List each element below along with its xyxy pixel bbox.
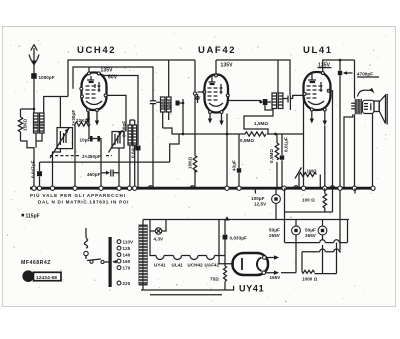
heater supply line <box>143 219 349 221</box>
svg-text:R: R <box>25 272 31 281</box>
resistor 1,5M <box>182 109 277 144</box>
svg-text:265V: 265V <box>305 233 316 238</box>
resistor 0,5M (vertical) <box>269 134 279 188</box>
chassis ground bus <box>30 187 373 190</box>
UL41 plate line <box>323 60 355 72</box>
node A (antenna/coil junction) <box>33 108 36 111</box>
resistor 75ohm <box>210 266 227 290</box>
svg-text:125: 125 <box>123 246 131 251</box>
wire <box>347 220 349 243</box>
svg-text:60V: 60V <box>108 75 118 81</box>
svg-text:310: 310 <box>39 121 44 129</box>
wire <box>130 120 135 188</box>
svg-text:12434-58: 12434-58 <box>36 275 57 281</box>
loudspeaker <box>374 94 387 125</box>
wire stub below bus <box>255 188 355 193</box>
svg-text:1000 Ω: 1000 Ω <box>302 277 318 282</box>
svg-text:12,5V: 12,5V <box>254 202 266 207</box>
wire screen line <box>163 128 304 134</box>
svg-text:170: 170 <box>123 266 131 271</box>
IF transformer T3 <box>259 93 292 109</box>
wire T2 top lead <box>168 60 170 97</box>
svg-text:100: 100 <box>167 101 172 109</box>
UAF42 section box <box>216 60 290 95</box>
voltage taps <box>117 240 133 286</box>
IF transformer T2 <box>150 97 185 188</box>
tube UAF42 bottom leads <box>210 114 222 122</box>
svg-text:DAL N DI MATRIC.187601 IN POI: DAL N DI MATRIC.187601 IN POI <box>38 200 129 205</box>
capacitor 460pF <box>87 148 119 188</box>
svg-text:4,3V: 4,3V <box>154 237 164 242</box>
resistor 100ohm <box>302 188 327 212</box>
svg-text:115pF: 115pF <box>26 214 40 220</box>
variable capacitor C2 (tuning gang section 2) <box>109 131 125 153</box>
svg-text:4700pF: 4700pF <box>357 72 373 77</box>
svg-text:15KΩ: 15KΩ <box>23 118 28 131</box>
tube UL41 bottom leads <box>312 111 325 122</box>
capacitor 1000pF <box>31 73 55 80</box>
label 115pF <box>22 214 25 217</box>
capacitor 0,04uF <box>131 100 141 188</box>
mains plug and switch S1 <box>84 228 117 264</box>
wire <box>21 109 35 188</box>
svg-text:0,033μF: 0,033μF <box>230 236 248 241</box>
tube UY41 output arrows <box>266 255 281 280</box>
svg-text:310: 310 <box>33 121 38 129</box>
oscillator coil L2 <box>128 125 137 145</box>
junction connectors <box>193 92 196 95</box>
wire <box>107 95 126 131</box>
capacitor 0,033uF <box>223 220 248 267</box>
wire <box>40 134 180 162</box>
maker logo <box>22 270 61 282</box>
tube UCH42 cathode leads <box>88 112 97 122</box>
wire (rectifier heater) <box>219 220 233 264</box>
tube UY41 <box>231 253 268 275</box>
dial lamp 4,3V <box>150 220 166 242</box>
svg-text:220: 220 <box>123 281 131 286</box>
svg-text:UY41: UY41 <box>239 284 264 294</box>
svg-text:165V: 165V <box>270 275 281 280</box>
capacitor 43uF <box>232 134 242 188</box>
svg-text:135V: 135V <box>101 67 114 73</box>
tube UCH42 <box>80 67 107 111</box>
svg-text:1000pF: 1000pF <box>39 75 55 80</box>
tube UL41 <box>303 72 330 111</box>
svg-text:140: 140 <box>123 253 131 258</box>
svg-text:0,04μF: 0,04μF <box>131 143 136 158</box>
wire <box>36 133 42 148</box>
potentiometer 1M <box>295 168 320 189</box>
wire 60V <box>100 74 139 100</box>
wire 135V <box>73 67 153 97</box>
svg-text:1,5MΩ: 1,5MΩ <box>254 121 268 126</box>
capacitor 0,047uF <box>31 160 43 188</box>
svg-text:UL41: UL41 <box>303 45 333 56</box>
UCH42 section box <box>68 60 195 97</box>
svg-text:UY41: UY41 <box>154 263 166 268</box>
power transformer winding <box>139 225 147 285</box>
wire <box>344 114 373 189</box>
svg-text:10KΩ: 10KΩ <box>188 156 193 169</box>
svg-text:0,5MΩ: 0,5MΩ <box>240 138 254 143</box>
resistor 22K <box>75 112 90 188</box>
capacitor 10uF <box>80 124 101 143</box>
svg-text:UCH42: UCH42 <box>77 45 116 56</box>
wire T2 bottom leads <box>163 103 183 134</box>
capacitor 0,01uF <box>280 134 289 188</box>
wire <box>100 139 101 189</box>
wire (secondary top to grid line) <box>44 97 68 114</box>
wire <box>198 92 261 188</box>
svg-text:2×450pF: 2×450pF <box>82 154 101 159</box>
svg-text:135V: 135V <box>221 63 234 69</box>
electrolytic 50uF (2) <box>305 220 327 239</box>
electrolytic 100uF <box>251 188 280 219</box>
capacitor 4700pF <box>338 60 379 251</box>
resistor 15K <box>18 109 27 141</box>
svg-text:0,5MΩ: 0,5MΩ <box>269 149 274 163</box>
svg-text:460pF: 460pF <box>87 172 101 177</box>
svg-text:UL41: UL41 <box>172 263 184 268</box>
variable capacitor C1 (tuning gang section 1) <box>50 128 73 158</box>
svg-text:10μF: 10μF <box>80 138 91 143</box>
svg-text:100: 100 <box>161 101 166 109</box>
bus nodes <box>32 186 375 191</box>
tube UAF42 <box>203 74 229 113</box>
svg-text:110V: 110V <box>123 240 134 245</box>
svg-text:0,047μF: 0,047μF <box>31 160 36 178</box>
output transformer T4 <box>351 60 374 114</box>
svg-text:43μF: 43μF <box>232 160 237 171</box>
dashed gang link <box>50 155 112 157</box>
electrolytic 50uF (1) <box>269 220 300 273</box>
wire (cathode to filter) <box>281 272 296 274</box>
wire (bus to 212 line) <box>285 188 333 242</box>
svg-text:UCH42: UCH42 <box>188 263 204 268</box>
svg-text:UAF42: UAF42 <box>198 45 236 56</box>
svg-text:100μF: 100μF <box>251 196 265 201</box>
svg-text:265V: 265V <box>269 233 280 238</box>
svg-text:50μF: 50μF <box>269 228 280 233</box>
svg-text:MF468R4Z: MF468R4Z <box>21 260 51 266</box>
power transformer primary bar <box>109 237 112 287</box>
svg-text:PIÙ VALE PER GLI APPARECCHI: PIÙ VALE PER GLI APPARECCHI <box>30 192 126 198</box>
svg-text:0,01μF: 0,01μF <box>284 137 289 152</box>
resistor 10K <box>188 60 197 188</box>
wire <box>141 220 234 295</box>
wire <box>21 108 35 110</box>
wire <box>53 97 61 189</box>
svg-text:100 Ω: 100 Ω <box>302 198 315 203</box>
svg-text:160: 160 <box>123 259 131 264</box>
svg-text:UAF42: UAF42 <box>205 263 220 268</box>
resistor 1000ohm <box>302 235 337 282</box>
svg-text:75Ω: 75Ω <box>210 277 219 282</box>
antenna coil L1 <box>33 113 44 133</box>
heater chain <box>150 231 225 268</box>
wire T3 leads <box>265 60 304 110</box>
antenna <box>29 45 39 110</box>
svg-text:50μF: 50μF <box>305 228 316 233</box>
